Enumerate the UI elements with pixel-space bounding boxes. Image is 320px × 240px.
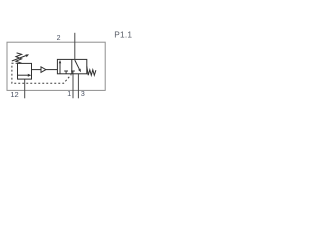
valve V1 body (3/2-way) (57, 59, 86, 73)
pilot control dashed line (12, 63, 71, 83)
svg-text:2: 2 (57, 35, 61, 42)
svg-text:12: 12 (10, 90, 18, 99)
right cell flow path 2->3 with arrow (75, 60, 80, 69)
valve position divider (71, 59, 73, 73)
wire port 3 stub (77, 74, 79, 99)
component enclosure frame (7, 42, 105, 90)
svg-text:P1.1: P1.1 (114, 29, 132, 39)
svg-text:1: 1 (67, 91, 71, 98)
wire port 1 stub (72, 74, 74, 99)
pressure setting element box (18, 63, 32, 79)
right cell blocked port T (72, 71, 74, 74)
wire box to amplifier (32, 69, 42, 71)
wire amplifier to valve (46, 69, 58, 71)
amplifier triangle (41, 67, 46, 73)
adjustable spring above box (16, 53, 22, 63)
arrow inside setting box (18, 74, 29, 76)
adjustment arrow (12, 55, 27, 61)
wire port 12 line (24, 79, 26, 98)
left cell flow arrow 1->2 (59, 63, 61, 74)
return spring (87, 67, 96, 76)
svg-text:3: 3 (81, 91, 85, 98)
wire port 2 stub (74, 33, 76, 60)
left cell blocked port T (65, 71, 67, 74)
